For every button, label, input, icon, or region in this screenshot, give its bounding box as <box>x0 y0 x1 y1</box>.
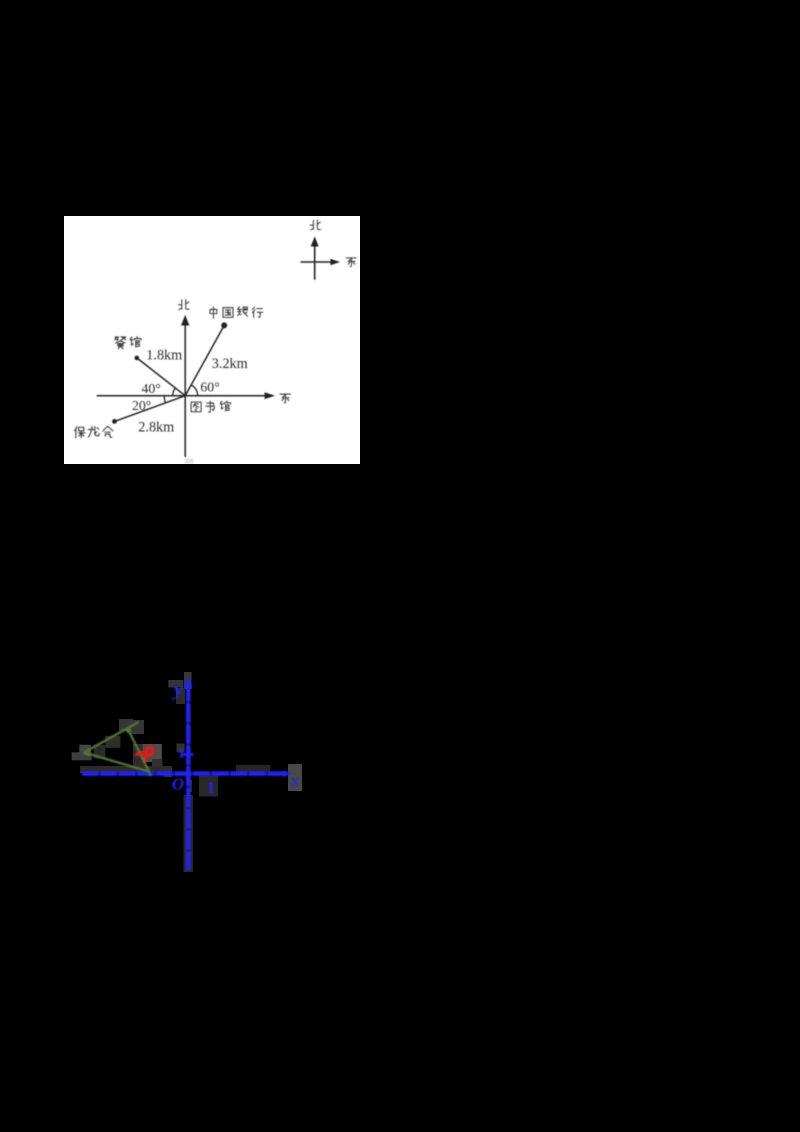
y axis label y <box>172 680 183 701</box>
svg-text:y: y <box>172 680 183 701</box>
green vertex tail C below axis <box>149 772 150 777</box>
svg-text:x: x <box>290 773 299 790</box>
angle label 60 deg <box>200 380 219 395</box>
label 中国银行 Bank of China <box>210 307 263 319</box>
angle arc 60 deg <box>191 385 197 396</box>
compass label 北 <box>310 220 320 230</box>
y axis dashed blue line <box>187 682 191 870</box>
svg-text:60°: 60° <box>200 380 219 395</box>
wire: line origin to Baolongcang store <box>114 396 185 422</box>
label 图书馆 library at origin <box>191 401 231 412</box>
green vertex blob B <box>126 728 131 733</box>
svg-text:1: 1 <box>207 778 215 797</box>
origin label O <box>172 775 184 794</box>
value label 3.2km <box>211 356 247 372</box>
value label 1.8km <box>146 348 182 364</box>
y axis arrowhead <box>184 677 192 688</box>
north axis arrowhead <box>181 315 189 326</box>
svg-text:O: O <box>172 775 184 794</box>
red mark near C <box>137 748 153 761</box>
panel: white diagram box <box>64 216 360 464</box>
wire: line origin to restaurant <box>136 358 184 396</box>
x axis dashed blue line <box>82 772 287 776</box>
x axis arrowhead <box>284 770 292 777</box>
jpeg artifact grey blocks <box>72 672 302 872</box>
x tick label 1 <box>207 778 215 797</box>
value label 2.8km <box>138 420 174 436</box>
wire: line origin to Bank of China <box>185 325 224 395</box>
node: Baolongcang dot <box>112 419 117 424</box>
green triangle edge A-C <box>84 753 149 772</box>
svg-text:1.8km: 1.8km <box>146 348 182 364</box>
svg-text:2.8km: 2.8km <box>138 420 174 436</box>
angle arc 20 deg <box>164 396 165 403</box>
angle arc 40 deg <box>172 388 175 396</box>
wire: east axis horizontal line <box>96 395 265 397</box>
diagram 1 svg overlay <box>64 216 361 464</box>
label 保龙仓 store <box>74 426 112 438</box>
green vertex blob A <box>82 750 90 757</box>
y tick label 1 <box>178 747 185 762</box>
svg-text:1: 1 <box>178 747 185 762</box>
green triangle edge A-B with stub <box>84 722 139 753</box>
svg-text:3.2km: 3.2km <box>211 356 247 372</box>
node: Bank of China dot <box>221 322 227 328</box>
node: restaurant dot <box>134 356 139 361</box>
diagram 2 svg (blue coordinate plane) <box>66 663 310 877</box>
label 餐馆 restaurant <box>114 337 140 349</box>
svg-text:20°: 20° <box>132 398 151 413</box>
compass: small north arrow <box>310 236 318 279</box>
compass: small east arrow <box>300 259 339 265</box>
green triangle edge B-C <box>129 731 149 772</box>
y tick 1 <box>183 753 194 756</box>
x axis label x <box>290 773 299 790</box>
wire: north axis vertical line <box>184 325 186 457</box>
label 东 east (main axes) <box>280 394 291 403</box>
label 北 north (main axes) <box>178 299 189 309</box>
angle label 40 deg <box>141 381 160 396</box>
compass label 东 <box>346 258 356 267</box>
east axis arrowhead <box>264 392 274 399</box>
angle label 20 deg <box>132 398 151 413</box>
jpeg artifact at axis bottom <box>184 459 193 464</box>
svg-text:40°: 40° <box>141 381 160 396</box>
